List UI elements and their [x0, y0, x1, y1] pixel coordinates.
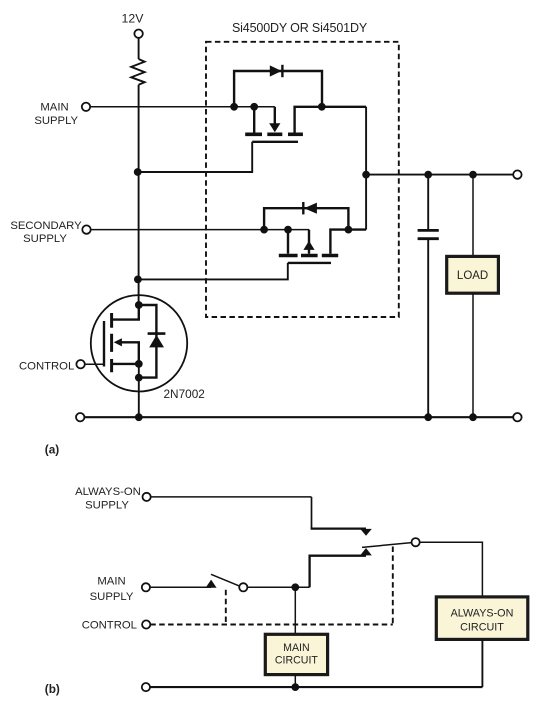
svg-text:Si4500DY OR Si4501DY: Si4500DY OR Si4501DY	[232, 21, 368, 35]
svg-text:MAIN: MAIN	[283, 642, 309, 654]
svg-text:2N7002: 2N7002	[164, 387, 205, 401]
svg-text:(a): (a)	[45, 443, 59, 457]
svg-text:12V: 12V	[122, 11, 145, 25]
svg-text:MAIN: MAIN	[40, 101, 68, 113]
svg-text:SUPPLY: SUPPLY	[34, 115, 78, 127]
svg-text:SECONDARY: SECONDARY	[10, 220, 82, 232]
svg-text:SUPPLY: SUPPLY	[90, 591, 134, 603]
svg-text:LOAD: LOAD	[457, 270, 488, 282]
svg-text:ALWAYS-ON: ALWAYS-ON	[75, 486, 141, 498]
svg-text:SUPPLY: SUPPLY	[85, 500, 129, 512]
svg-text:SUPPLY: SUPPLY	[23, 233, 67, 245]
svg-text:MAIN: MAIN	[97, 575, 125, 587]
svg-text:CIRCUIT: CIRCUIT	[275, 655, 318, 667]
svg-text:(b): (b)	[45, 682, 60, 696]
svg-text:CIRCUIT: CIRCUIT	[460, 621, 504, 633]
svg-text:CONTROL: CONTROL	[19, 360, 74, 372]
svg-text:ALWAYS-ON: ALWAYS-ON	[451, 608, 514, 620]
svg-text:CONTROL: CONTROL	[82, 619, 137, 631]
